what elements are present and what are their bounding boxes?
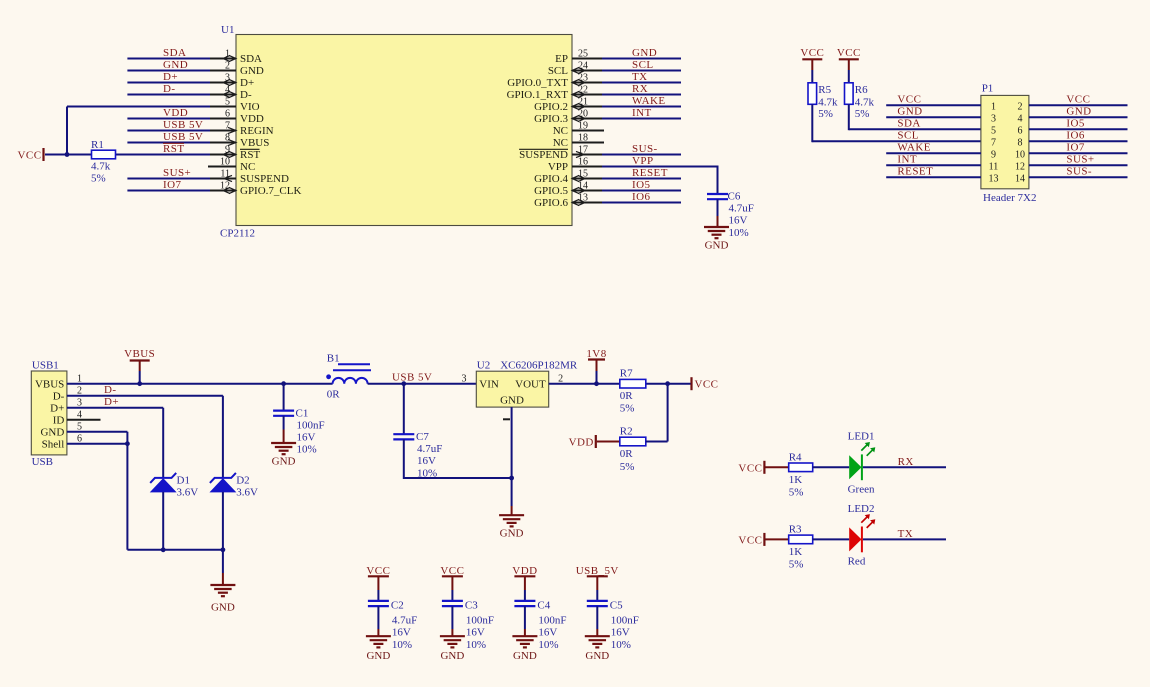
svg-text:TX: TX bbox=[898, 528, 914, 540]
svg-text:SUS-: SUS- bbox=[632, 143, 658, 155]
svg-text:10%: 10% bbox=[417, 467, 437, 479]
wire VPP down to C6 bbox=[717, 166, 719, 195]
svg-text:0R: 0R bbox=[620, 448, 634, 460]
U1 pin 14 GPIO.5 bbox=[534, 180, 604, 197]
junction 1V8 bbox=[594, 381, 599, 386]
svg-text:16V: 16V bbox=[729, 215, 748, 227]
wire VCC to R5 bbox=[811, 59, 813, 83]
U1 pin 5 VIO bbox=[208, 96, 260, 113]
svg-text:RX: RX bbox=[632, 83, 648, 95]
svg-text:6: 6 bbox=[1018, 125, 1023, 136]
svg-text:RESET: RESET bbox=[632, 167, 668, 179]
svg-text:5%: 5% bbox=[789, 486, 804, 498]
wire P1 to IO7 bbox=[1029, 152, 1128, 154]
wire VCC to R1 bbox=[45, 154, 92, 156]
svg-text:10: 10 bbox=[220, 156, 230, 167]
svg-text:SDA: SDA bbox=[163, 47, 186, 59]
svg-text:0R: 0R bbox=[620, 390, 634, 402]
svg-text:SCL: SCL bbox=[548, 65, 568, 77]
svg-text:USB 5V: USB 5V bbox=[163, 131, 203, 143]
svg-text:ID: ID bbox=[53, 414, 65, 426]
svg-text:IO5: IO5 bbox=[632, 179, 651, 191]
svg-text:VDD: VDD bbox=[569, 437, 594, 449]
capacitor C4 bbox=[514, 599, 566, 650]
svg-text:VIO: VIO bbox=[240, 101, 260, 113]
svg-text:SCL: SCL bbox=[897, 130, 919, 142]
svg-text:GPIO.5: GPIO.5 bbox=[534, 185, 568, 197]
wire RESET to P1 bbox=[886, 176, 981, 178]
wire to U1 pin 2 bbox=[127, 70, 210, 72]
wire from U1 pin 15 bbox=[602, 178, 681, 180]
wire VCC to R6 bbox=[848, 59, 850, 83]
svg-text:5%: 5% bbox=[620, 461, 635, 473]
wire to U1 pin 7 bbox=[127, 130, 210, 132]
wire to U1 pin 6 bbox=[127, 118, 210, 120]
svg-text:R5: R5 bbox=[818, 84, 831, 96]
svg-text:10%: 10% bbox=[392, 639, 412, 651]
power port VCC (left) bbox=[18, 148, 44, 162]
svg-text:11: 11 bbox=[989, 161, 999, 172]
wire R4 to LED1 bbox=[813, 466, 850, 468]
svg-text:10%: 10% bbox=[538, 639, 558, 651]
wire C1 stem bbox=[283, 384, 285, 411]
svg-text:7: 7 bbox=[991, 137, 996, 148]
svg-text:GND: GND bbox=[500, 528, 524, 540]
svg-text:10%: 10% bbox=[611, 639, 631, 651]
svg-text:D2: D2 bbox=[236, 474, 249, 486]
resistor R7 bbox=[620, 368, 646, 415]
svg-text:D-: D- bbox=[163, 83, 176, 95]
capacitor C5 bbox=[587, 599, 639, 650]
wire from U1 pin 14 bbox=[602, 190, 681, 192]
wire junction to VCC port bbox=[668, 383, 691, 385]
svg-text:RESET: RESET bbox=[897, 166, 933, 178]
wire from U1 pin 24 bbox=[602, 70, 681, 72]
wire VCC to R3 bbox=[765, 538, 788, 540]
net label RST (U1 pin 9) bbox=[163, 143, 185, 155]
wire VCC to C3 bbox=[451, 576, 453, 601]
wire R3 to LED2 bbox=[813, 538, 850, 540]
power port VBUS bbox=[124, 348, 155, 384]
wire from U1 pin 17 bbox=[602, 154, 681, 156]
svg-text:GPIO.0_TXT: GPIO.0_TXT bbox=[507, 77, 568, 89]
power port VCC (C3) bbox=[440, 565, 464, 577]
wire VIO branch vertical bbox=[66, 107, 68, 155]
U1 pin 21 GPIO.2 bbox=[534, 96, 604, 113]
wire INT to P1 bbox=[886, 164, 981, 166]
svg-text:WAKE: WAKE bbox=[897, 142, 931, 154]
U1 pin 25 EP bbox=[555, 48, 604, 65]
wire to U1 pin 11 bbox=[127, 178, 210, 180]
svg-text:4.7k: 4.7k bbox=[855, 97, 875, 109]
U1 pin 18 NC bbox=[553, 132, 604, 149]
wire U2 VOUT to VCC bbox=[549, 383, 668, 385]
wire to U1 pin 12 bbox=[127, 190, 210, 192]
power port VCC (R4) bbox=[738, 461, 764, 475]
ground symbol (C4) bbox=[512, 636, 537, 662]
svg-text:GPIO.4: GPIO.4 bbox=[534, 173, 568, 185]
wire to U1 pin 4 bbox=[127, 94, 210, 96]
svg-text:NC: NC bbox=[553, 125, 568, 137]
svg-text:NC: NC bbox=[240, 161, 255, 173]
wire P1 to SUS- bbox=[1029, 176, 1128, 178]
zener diode D1 bbox=[150, 473, 198, 550]
junction D1 rail bbox=[161, 547, 166, 552]
wire D+ from USB1 pin3 bbox=[67, 408, 163, 478]
svg-text:8: 8 bbox=[1018, 137, 1023, 148]
U1 pin 2 GND bbox=[208, 60, 264, 77]
wire Shell from USB1 pin6 bbox=[67, 443, 128, 445]
svg-text:C5: C5 bbox=[610, 599, 623, 611]
svg-text:C4: C4 bbox=[537, 599, 550, 611]
svg-text:VPP: VPP bbox=[632, 155, 654, 167]
svg-text:VCC: VCC bbox=[800, 47, 824, 59]
svg-text:5: 5 bbox=[991, 125, 996, 136]
svg-text:GND: GND bbox=[500, 394, 524, 406]
svg-text:100nF: 100nF bbox=[611, 614, 639, 626]
svg-text:SDA: SDA bbox=[240, 53, 262, 65]
svg-text:GND: GND bbox=[632, 47, 657, 59]
svg-text:GND: GND bbox=[513, 650, 537, 662]
svg-text:INT: INT bbox=[632, 107, 652, 119]
svg-text:4.7k: 4.7k bbox=[818, 97, 838, 109]
svg-text:GND: GND bbox=[897, 106, 922, 118]
wire P1 to GND bbox=[1029, 116, 1128, 118]
U1 pin 10 NC bbox=[208, 156, 255, 173]
svg-text:RST: RST bbox=[240, 149, 260, 161]
svg-text:VOUT: VOUT bbox=[515, 379, 546, 391]
svg-text:Shell: Shell bbox=[42, 438, 65, 450]
wire from U1 pin 16 bbox=[602, 166, 718, 168]
svg-text:VCC: VCC bbox=[738, 462, 762, 474]
svg-text:D+: D+ bbox=[104, 396, 119, 408]
wire R2 to junction bbox=[646, 441, 668, 443]
svg-text:3: 3 bbox=[462, 374, 467, 385]
svg-text:4.7uF: 4.7uF bbox=[417, 443, 442, 455]
svg-text:SUS+: SUS+ bbox=[1066, 154, 1094, 166]
svg-text:VCC: VCC bbox=[695, 379, 719, 391]
svg-text:RST: RST bbox=[163, 143, 185, 155]
power port USB_5V (C5) bbox=[576, 565, 619, 577]
svg-text:IO7: IO7 bbox=[1066, 142, 1085, 154]
svg-text:GPIO.6: GPIO.6 bbox=[534, 197, 568, 209]
svg-text:USB: USB bbox=[32, 456, 53, 468]
svg-text:C3: C3 bbox=[465, 599, 478, 611]
svg-text:VDD: VDD bbox=[240, 113, 264, 125]
svg-text:SCL: SCL bbox=[632, 59, 654, 71]
junction R7/R2 bbox=[665, 381, 670, 386]
svg-text:Green: Green bbox=[848, 483, 875, 495]
ground symbol (C3) bbox=[440, 636, 465, 662]
U1 pin 22 GPIO.1_RXT bbox=[507, 84, 604, 101]
svg-text:R7: R7 bbox=[620, 368, 633, 380]
svg-text:VCC: VCC bbox=[18, 150, 42, 162]
svg-text:VCC: VCC bbox=[366, 565, 390, 577]
capacitor C1 bbox=[273, 407, 325, 455]
svg-text:GND: GND bbox=[211, 602, 235, 614]
svg-text:VCC: VCC bbox=[440, 565, 464, 577]
U1 pin 1 SDA bbox=[208, 48, 262, 65]
U1 pin 6 VDD bbox=[208, 108, 264, 125]
svg-text:2: 2 bbox=[1018, 101, 1023, 112]
resistor R5 bbox=[808, 83, 838, 120]
svg-text:100nF: 100nF bbox=[538, 614, 566, 626]
svg-text:D1: D1 bbox=[177, 474, 190, 486]
wire to U1 pin 8 bbox=[127, 142, 210, 144]
U1 pin 9 RST bbox=[208, 144, 260, 161]
svg-text:GND: GND bbox=[585, 650, 609, 662]
svg-text:16V: 16V bbox=[417, 455, 436, 467]
wire from U1 pin 25 bbox=[602, 58, 681, 60]
junction D2 rail bbox=[221, 547, 226, 552]
svg-text:IO7: IO7 bbox=[163, 179, 182, 191]
U1 pin 16 VPP bbox=[548, 156, 604, 173]
U1 pin 24 SCL bbox=[548, 60, 604, 77]
svg-text:5%: 5% bbox=[620, 403, 635, 415]
svg-text:14: 14 bbox=[1015, 173, 1025, 184]
wire R6 to SDA net bbox=[849, 104, 981, 130]
svg-text:VCC: VCC bbox=[897, 94, 921, 106]
power port VDD (R2) bbox=[569, 435, 596, 449]
capacitor C6 bbox=[707, 191, 754, 239]
wire R7 junction down to R2 bbox=[667, 384, 669, 442]
svg-text:C7: C7 bbox=[416, 431, 429, 443]
svg-text:16: 16 bbox=[578, 156, 588, 167]
wire to U1 pin 5 bbox=[67, 106, 210, 108]
svg-text:VCC: VCC bbox=[837, 47, 861, 59]
svg-text:GND: GND bbox=[705, 240, 729, 252]
svg-text:VBUS: VBUS bbox=[240, 137, 269, 149]
wire from U1 pin 23 bbox=[602, 82, 681, 84]
svg-text:19: 19 bbox=[578, 120, 588, 131]
svg-text:5%: 5% bbox=[789, 558, 804, 570]
resistor R2 bbox=[620, 426, 646, 473]
svg-text:8: 8 bbox=[225, 132, 230, 143]
regulator U2 XC6206P182MR body bbox=[462, 359, 578, 419]
power port VDD (C4) bbox=[512, 565, 537, 577]
svg-text:INT: INT bbox=[897, 154, 917, 166]
svg-text:P1: P1 bbox=[982, 83, 994, 95]
svg-text:VPP: VPP bbox=[548, 161, 568, 173]
svg-text:Header 7X2: Header 7X2 bbox=[983, 192, 1036, 204]
svg-text:10%: 10% bbox=[466, 639, 486, 651]
svg-text:IO6: IO6 bbox=[632, 191, 651, 203]
junction U2 gnd / C7 bbox=[509, 476, 514, 481]
U2 GND pin wire bbox=[511, 407, 513, 515]
svg-text:GND: GND bbox=[240, 65, 264, 77]
U1 pin 13 GPIO.6 bbox=[534, 192, 604, 209]
svg-text:U1: U1 bbox=[221, 24, 234, 36]
capacitor C7 bbox=[393, 431, 511, 479]
svg-text:7: 7 bbox=[225, 120, 230, 131]
svg-text:5: 5 bbox=[225, 96, 230, 107]
svg-text:EP: EP bbox=[555, 53, 568, 65]
junction C7 bbox=[401, 381, 406, 386]
power port VCC (after R7) bbox=[692, 377, 719, 391]
wire GND to P1 bbox=[886, 116, 981, 118]
svg-text:USB 5V: USB 5V bbox=[392, 372, 432, 384]
svg-text:5%: 5% bbox=[855, 108, 870, 120]
svg-text:R2: R2 bbox=[620, 426, 633, 438]
wire from U1 pin 22 bbox=[602, 94, 681, 96]
svg-text:16V: 16V bbox=[538, 627, 557, 639]
ferrite bead B1 bbox=[326, 353, 371, 401]
svg-text:VBUS: VBUS bbox=[124, 348, 155, 360]
svg-text:16V: 16V bbox=[392, 627, 411, 639]
svg-text:GND: GND bbox=[1066, 106, 1091, 118]
ground symbol (C2) bbox=[366, 636, 391, 662]
wire B1 to U2 VIN bbox=[368, 383, 477, 385]
svg-text:25: 25 bbox=[578, 48, 588, 59]
svg-text:18: 18 bbox=[578, 132, 588, 143]
svg-text:WAKE: WAKE bbox=[632, 95, 666, 107]
svg-text:D-: D- bbox=[53, 390, 65, 402]
svg-text:10%: 10% bbox=[297, 444, 317, 456]
svg-text:XC6206P182MR: XC6206P182MR bbox=[500, 359, 578, 371]
wire VCC to C2 bbox=[377, 576, 379, 601]
svg-text:C2: C2 bbox=[391, 599, 404, 611]
svg-text:NC: NC bbox=[553, 137, 568, 149]
svg-text:D+: D+ bbox=[50, 402, 64, 414]
wire VCC to R4 bbox=[765, 466, 788, 468]
svg-text:VIN: VIN bbox=[479, 379, 499, 391]
power port VCC (C2) bbox=[366, 565, 390, 577]
ground symbol (USB) bbox=[210, 585, 235, 614]
U1 pin 7 REGIN bbox=[208, 120, 274, 137]
svg-text:GND: GND bbox=[366, 650, 390, 662]
wire from U1 pin 21 bbox=[602, 106, 681, 108]
svg-text:4.7uF: 4.7uF bbox=[729, 203, 754, 215]
svg-text:U2: U2 bbox=[477, 359, 490, 371]
wire VDD to R2 bbox=[597, 441, 620, 443]
U1 pin 19 NC bbox=[553, 120, 604, 137]
wire P1 to VCC bbox=[1029, 104, 1128, 106]
svg-text:C6: C6 bbox=[728, 191, 741, 203]
wire P1 to IO5 bbox=[1029, 128, 1128, 130]
svg-text:GND: GND bbox=[163, 59, 188, 71]
U1 pin 8 VBUS bbox=[208, 132, 269, 149]
svg-text:GPIO.7_CLK: GPIO.7_CLK bbox=[240, 185, 301, 197]
wire ground rail (USB) bbox=[127, 549, 222, 551]
svg-text:R3: R3 bbox=[789, 523, 802, 535]
svg-text:100nF: 100nF bbox=[466, 614, 494, 626]
wire VDD to C4 bbox=[524, 576, 526, 601]
svg-text:1K: 1K bbox=[789, 546, 803, 558]
ground symbol (C5) bbox=[585, 636, 610, 662]
wire from U1 pin 13 bbox=[602, 202, 681, 204]
junction Shell bbox=[125, 441, 130, 446]
wire from U1 pin 20 bbox=[602, 118, 681, 120]
svg-text:IO5: IO5 bbox=[1066, 118, 1085, 130]
wire C7 stem bbox=[403, 384, 405, 435]
svg-text:D-: D- bbox=[104, 384, 117, 396]
svg-text:9: 9 bbox=[991, 149, 996, 160]
svg-text:C1: C1 bbox=[296, 407, 309, 419]
wire USB VBUS rail bbox=[67, 383, 333, 385]
svg-text:1: 1 bbox=[991, 101, 996, 112]
svg-text:VBUS: VBUS bbox=[35, 378, 64, 390]
svg-text:4.7uF: 4.7uF bbox=[392, 614, 417, 626]
svg-text:13: 13 bbox=[989, 173, 999, 184]
LED LED1 Green bbox=[848, 431, 876, 496]
connector P1 Header 7X2 body bbox=[981, 83, 1037, 205]
junction VBUS bbox=[137, 381, 142, 386]
ground symbol (C1) bbox=[271, 443, 296, 468]
wire to U1 pin 9 bbox=[116, 154, 211, 156]
svg-text:3.6V: 3.6V bbox=[236, 486, 258, 498]
capacitor C2 bbox=[368, 599, 417, 650]
svg-text:GND: GND bbox=[272, 456, 296, 468]
svg-text:SDA: SDA bbox=[897, 118, 920, 130]
svg-text:TX: TX bbox=[632, 71, 648, 83]
svg-text:10%: 10% bbox=[729, 227, 749, 239]
svg-text:SUSPEND: SUSPEND bbox=[519, 149, 568, 161]
wire LED1 to RX bbox=[863, 466, 946, 468]
connector USB1 body bbox=[31, 360, 82, 468]
svg-text:5%: 5% bbox=[91, 173, 106, 185]
svg-text:100nF: 100nF bbox=[297, 419, 325, 431]
svg-text:VCC: VCC bbox=[738, 534, 762, 546]
wire to U1 pin 3 bbox=[127, 82, 210, 84]
svg-text:16V: 16V bbox=[466, 627, 485, 639]
svg-text:SUS+: SUS+ bbox=[163, 167, 191, 179]
svg-text:2: 2 bbox=[225, 60, 230, 71]
svg-text:1K: 1K bbox=[789, 474, 803, 486]
svg-text:GPIO.3: GPIO.3 bbox=[534, 113, 568, 125]
power port VCC above R5 bbox=[800, 47, 824, 59]
wire LED2 to TX bbox=[863, 538, 946, 540]
wire D- from USB1 pin2 bbox=[67, 396, 223, 478]
U1 pin 17 SUSPEND bbox=[519, 144, 604, 161]
svg-text:10: 10 bbox=[1015, 149, 1025, 160]
U1 pin 15 GPIO.4 bbox=[534, 168, 604, 185]
wire USB_5V to C5 bbox=[596, 576, 598, 601]
svg-text:D+: D+ bbox=[163, 71, 178, 83]
svg-text:USB 5V: USB 5V bbox=[163, 119, 203, 131]
svg-text:GPIO.2: GPIO.2 bbox=[534, 101, 568, 113]
svg-text:USB1: USB1 bbox=[32, 360, 59, 372]
U1 pin 11 SUSPEND bbox=[208, 168, 289, 185]
svg-text:VCC: VCC bbox=[1066, 94, 1090, 106]
svg-text:16V: 16V bbox=[611, 627, 630, 639]
svg-text:R1: R1 bbox=[91, 139, 104, 151]
LED LED2 Red bbox=[848, 503, 876, 568]
svg-text:R6: R6 bbox=[855, 84, 868, 96]
resistor R6 bbox=[845, 83, 875, 120]
wire rail down to ground bbox=[222, 550, 224, 585]
resistor R1 bbox=[91, 139, 116, 185]
svg-text:VDD: VDD bbox=[163, 107, 188, 119]
svg-text:0R: 0R bbox=[327, 388, 341, 400]
svg-text:SUSPEND: SUSPEND bbox=[240, 173, 289, 185]
power port 1V8 bbox=[586, 348, 606, 384]
svg-text:LED1: LED1 bbox=[848, 431, 875, 443]
U1 pin 20 GPIO.3 bbox=[534, 108, 604, 125]
svg-text:5%: 5% bbox=[818, 108, 833, 120]
svg-text:Red: Red bbox=[848, 555, 866, 567]
svg-text:B1: B1 bbox=[327, 353, 340, 365]
svg-text:3: 3 bbox=[991, 113, 996, 124]
U1 pin 23 GPIO.0_TXT bbox=[507, 72, 604, 89]
junction VCC/VIO bbox=[65, 152, 70, 157]
wire to U1 pin 1 bbox=[127, 58, 210, 60]
svg-text:D-: D- bbox=[240, 89, 252, 101]
junction C1 bbox=[281, 381, 286, 386]
wire R5 to SCL net bbox=[812, 104, 981, 142]
IC U1 CP2112 body bbox=[220, 24, 572, 240]
svg-text:GPIO.1_RXT: GPIO.1_RXT bbox=[507, 89, 569, 101]
svg-text:SUS-: SUS- bbox=[1066, 166, 1092, 178]
